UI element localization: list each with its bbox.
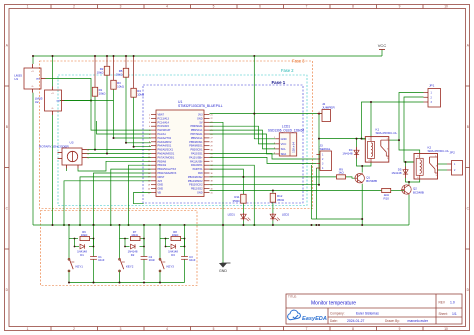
junction (361, 218, 363, 220)
svg-text:25: 25 (211, 130, 213, 132)
svg-text:Euler Sistemas: Euler Sistemas (356, 311, 379, 315)
LED LED2 (270, 213, 289, 221)
svg-text:21: 21 (148, 192, 150, 194)
svg-text:128 x 64: 128 x 64 (292, 142, 296, 153)
svg-text:SCL: SCL (281, 147, 287, 151)
pin L19 (151, 184, 156, 186)
svg-text:1: 1 (318, 112, 319, 114)
keys dashed box (41, 211, 198, 286)
svg-text:7: 7 (306, 327, 308, 331)
pin R21 (204, 192, 210, 194)
wire Q1 emitter to bus (361, 184, 363, 225)
svg-text:GND: GND (219, 269, 227, 273)
wire Q1 collector (361, 166, 363, 173)
svg-text:3: 3 (149, 122, 150, 124)
wire MCU to LCD VCC (210, 126, 276, 144)
wire column R3 (113, 56, 115, 80)
wire keys bottom rail (69, 282, 185, 284)
wire MCU row to bus (210, 165, 255, 225)
junction (63, 224, 65, 226)
junction (106, 153, 108, 155)
wire parallel posts (74, 239, 76, 247)
connector JP2 (447, 151, 463, 176)
junction (93, 282, 95, 284)
junction (94, 55, 96, 57)
junction (318, 138, 320, 140)
wire to VCC symbol (381, 50, 383, 57)
svg-text:5: 5 (149, 130, 150, 132)
wire encoder leg 1 stub (66, 169, 68, 172)
junction (93, 224, 95, 226)
svg-text:SDA: SDA (281, 152, 287, 156)
pin R16 (204, 172, 210, 174)
pin R4 (204, 125, 210, 127)
svg-text:B: B (467, 125, 469, 129)
svg-text:17: 17 (148, 177, 150, 179)
junction (222, 224, 224, 226)
capacitor C1 10nF (90, 255, 105, 262)
wire LM35 U2 out (60, 100, 91, 102)
svg-text:4: 4 (149, 126, 150, 128)
ground symbol (220, 263, 231, 267)
junction (124, 238, 126, 240)
relay K2 SRA-05VDC-CL (414, 146, 450, 180)
wire K1 net horizontal (319, 138, 366, 140)
pin R15 (204, 168, 210, 170)
svg-text:SRA-05VDC-CL: SRA-05VDC-CL (376, 131, 398, 135)
transistor Q1 BC548B (354, 173, 377, 184)
svg-text:10kΩ: 10kΩ (117, 85, 125, 89)
svg-text:39: 39 (211, 185, 213, 187)
pin L14 (151, 164, 156, 166)
svg-text:8: 8 (352, 327, 354, 331)
junction (119, 282, 121, 284)
pin L9 (151, 145, 156, 147)
resistor R12 (270, 193, 285, 202)
junction (143, 238, 145, 240)
svg-text:PB7/SDA1: PB7/SDA1 (191, 133, 204, 136)
junction (165, 246, 167, 248)
wire MCU key scan row 169.1 (111, 169, 151, 225)
key switch KEY3 (159, 258, 175, 272)
wire Q2 collector (408, 182, 410, 185)
junction (125, 55, 127, 57)
svg-text:PB9/SDA1: PB9/SDA1 (191, 125, 204, 128)
junction (133, 146, 135, 148)
key column KEY1 rails (68, 225, 70, 283)
svg-text:2: 2 (149, 118, 150, 120)
svg-text:Drawn By:: Drawn By: (385, 319, 400, 323)
svg-text:10kΩ: 10kΩ (116, 73, 124, 77)
wire MCU key scan row 173.0 (94, 173, 152, 225)
svg-text:PB13/SCK2: PB13/SCK2 (189, 184, 203, 187)
svg-text:BC548B: BC548B (413, 190, 424, 194)
pin R19 (204, 184, 210, 186)
svg-text:10nF: 10nF (189, 258, 196, 262)
wire parallel posts (165, 239, 167, 247)
junction (106, 55, 108, 57)
wire U2 crossing link (64, 100, 114, 102)
svg-text:GND: GND (281, 137, 287, 141)
svg-text:31: 31 (211, 153, 213, 155)
resistor R2 (97, 66, 110, 75)
svg-text:PB5/MOSI1: PB5/MOSI1 (189, 141, 203, 144)
resistor R1 (92, 87, 106, 96)
svg-text:10kΩ: 10kΩ (172, 233, 179, 237)
junction (361, 165, 363, 167)
svg-text:LED1: LED1 (228, 213, 236, 217)
svg-text:GND: GND (158, 184, 164, 187)
junction (318, 224, 320, 226)
pin L16 (151, 172, 156, 174)
svg-text:PB0/A8: PB0/A8 (158, 160, 167, 163)
svg-text:3V3: 3V3 (198, 114, 203, 117)
capacitor C2 10nF (141, 255, 156, 262)
pin L1 (151, 114, 156, 116)
junction (74, 238, 76, 240)
junction (253, 113, 255, 115)
pin R7 (204, 137, 210, 139)
svg-text:8: 8 (352, 5, 354, 9)
LCD pin GND (275, 138, 279, 140)
svg-text:VCC: VCC (378, 43, 387, 48)
svg-text:1.0: 1.0 (450, 301, 455, 305)
wire K2 flyback D5 bottom (406, 178, 420, 182)
svg-text:21: 21 (211, 114, 213, 116)
junction (128, 224, 130, 226)
svg-text:3: 3 (120, 5, 122, 9)
svg-text:PA11/USB-: PA11/USB- (190, 160, 203, 163)
svg-text:30: 30 (211, 149, 213, 151)
pin R17 (204, 176, 210, 178)
pin R9 (204, 145, 210, 147)
svg-text:6: 6 (149, 134, 150, 136)
pin L12 (151, 156, 156, 158)
svg-text:Fase 3: Fase 3 (292, 58, 305, 63)
junction (398, 139, 400, 141)
svg-text:PA15/SS1: PA15/SS1 (191, 153, 203, 156)
svg-text:PC15/A15: PC15/A15 (158, 125, 170, 128)
svg-text:PB14/MISO2: PB14/MISO2 (188, 180, 203, 183)
svg-text:JP2: JP2 (450, 151, 456, 155)
svg-text:41: 41 (211, 192, 213, 194)
junction (184, 224, 186, 226)
svg-text:1: 1 (274, 137, 275, 139)
svg-text:10: 10 (148, 149, 150, 151)
relay K1 SRA-05VDC-CL (365, 128, 397, 163)
svg-text:Monitor temperature: Monitor temperature (311, 300, 356, 306)
junction (311, 224, 313, 226)
junction (242, 176, 244, 178)
key switch KEY1 (68, 258, 84, 272)
svg-text:KEY2: KEY2 (126, 265, 134, 269)
resistor R8 (160, 230, 185, 241)
svg-text:PA2/A2/TX2: PA2/A2/TX2 (158, 137, 172, 140)
resistor R6 (69, 230, 94, 241)
wire ground bus (33, 224, 409, 226)
wire column R2 (106, 56, 108, 66)
svg-text:BC548B: BC548B (366, 179, 377, 183)
svg-text:1: 1 (27, 327, 29, 331)
wire MCU key scan row 176.9 (80, 177, 151, 225)
junction (272, 224, 274, 226)
svg-text:G: G (32, 86, 34, 88)
svg-text:KEY3: KEY3 (167, 265, 175, 269)
svg-text:B: B (6, 125, 8, 129)
wire column R5 (125, 56, 127, 68)
microcontroller U1 STM32F103C8T6_BLUEPILL (148, 100, 223, 196)
svg-text:JUMPER: JUMPER (322, 106, 335, 110)
junction (125, 142, 127, 144)
wire R11 feed (210, 169, 244, 194)
wire R11 aux feed (210, 176, 337, 178)
title block (286, 294, 462, 324)
junction (143, 224, 145, 226)
junction (143, 246, 145, 248)
svg-text:4: 4 (166, 5, 168, 9)
Fase 2 dashed box (58, 75, 307, 206)
wire encoder C into MCU (87, 156, 151, 158)
wire encoder A into MCU (87, 149, 151, 151)
svg-text:PC13/A13: PC13/A13 (158, 117, 170, 120)
sensor LM35 U2 (35, 87, 64, 116)
svg-text:PB12/SS2: PB12/SS2 (191, 188, 203, 191)
svg-text:PA3/A3/RX2: PA3/A3/RX2 (158, 141, 172, 144)
wire MCU bottom left jog (134, 193, 152, 204)
svg-text:28: 28 (211, 142, 213, 144)
svg-text:4: 4 (166, 327, 168, 331)
resistor R9 (337, 167, 346, 179)
svg-text:3: 3 (274, 147, 275, 149)
svg-text:VBAT: VBAT (158, 114, 165, 117)
wire MCU key scan row 165.2 (129, 165, 152, 225)
svg-text:R10: R10 (384, 196, 390, 200)
Fase 1 dashed box (143, 85, 303, 203)
junction (242, 224, 244, 226)
wire LM35 U2 top drop (52, 56, 54, 87)
svg-text:Fase 1: Fase 1 (272, 80, 286, 85)
wire MCU to J3 pin2 (210, 157, 317, 163)
JP1 pin 2 (424, 96, 429, 98)
key column KEY2 rails (119, 225, 121, 283)
J3 pin 3 (316, 163, 320, 165)
svg-text:19: 19 (148, 185, 150, 187)
svg-text:PA6/A6/MISO1: PA6/A6/MISO1 (158, 153, 175, 156)
pin R1 (204, 114, 210, 116)
svg-text:1N4148: 1N4148 (342, 152, 353, 156)
junction (113, 137, 115, 139)
pin R12 (204, 156, 210, 158)
svg-text:PA10/RX1: PA10/RX1 (191, 164, 203, 167)
wire LED2 to bus (272, 221, 274, 226)
svg-text:PB11/SDA2/RX3: PB11/SDA2/RX3 (158, 172, 177, 175)
pin L3 (151, 121, 156, 123)
pin R18 (204, 180, 210, 182)
svg-text:37: 37 (211, 177, 213, 179)
svg-text:1/1: 1/1 (452, 312, 457, 316)
junction (94, 149, 96, 151)
svg-text:Company:: Company: (330, 311, 345, 315)
svg-text:D1: D1 (80, 253, 84, 257)
Fase 3 dashed box (40, 61, 313, 286)
svg-text:27: 27 (211, 138, 213, 140)
svg-text:5V: 5V (199, 121, 202, 124)
wire parallel posts (124, 239, 126, 247)
resistor R5 (116, 68, 129, 77)
wire LM35 U1 bottom to bus (32, 93, 34, 225)
wire LED feed 2 / Q2 base (210, 190, 382, 192)
J3 pin 4 (316, 167, 320, 169)
LCD pin SDA (275, 153, 279, 155)
rotary encoder U3 (39, 141, 90, 169)
junction (32, 55, 34, 57)
svg-text:6: 6 (259, 327, 261, 331)
svg-text:STM32F103C8T6_BLUEPILL: STM32F103C8T6_BLUEPILL (178, 104, 223, 108)
wire LED1 link (242, 203, 244, 213)
svg-text:9: 9 (149, 146, 150, 148)
svg-text:18: 18 (148, 181, 150, 183)
svg-text:SSD1306_OLED_128x64: SSD1306_OLED_128x64 (268, 129, 305, 133)
EasyEDA logo (288, 310, 327, 322)
wire MCU to J3 pin1 (210, 154, 317, 160)
wire LM35 U1 out (46, 79, 152, 131)
pin L6 (151, 133, 156, 135)
svg-text:U2: U2 (35, 100, 39, 104)
svg-text:D2: D2 (131, 253, 135, 257)
wire MCU key scan row 180.8 (64, 181, 151, 225)
svg-text:10nF: 10nF (98, 258, 105, 262)
junction (68, 224, 70, 226)
pin R10 (204, 149, 210, 151)
pin L21 (151, 192, 156, 194)
display LCD1 SSD1306_OLED_128x64 (268, 125, 305, 157)
svg-text:1kΩ: 1kΩ (338, 171, 344, 175)
junction (356, 138, 358, 140)
diode D5 1N4148 (391, 167, 408, 179)
svg-text:NRST: NRST (158, 176, 165, 179)
svg-text:15: 15 (148, 169, 150, 171)
svg-text:PB1/A9: PB1/A9 (158, 164, 167, 167)
wire encoder B into MCU (87, 153, 151, 155)
wire MCU row 134 (97, 121, 152, 134)
wire JP1 pin1 to K2 (399, 93, 424, 154)
wire K2 flyback D5 top (406, 162, 415, 167)
wire R4 into MCU (134, 146, 151, 148)
svg-text:3V3: 3V3 (158, 180, 163, 183)
junction (361, 138, 363, 140)
power flag VCC (379, 49, 385, 51)
svg-text:10kΩ: 10kΩ (97, 71, 105, 75)
svg-text:PB10/SCL2/TX3: PB10/SCL2/TX3 (158, 168, 177, 171)
wire LED feed 1 (210, 184, 320, 186)
svg-text:10nF: 10nF (149, 258, 156, 262)
svg-text:PA7/A7/MOSI1: PA7/A7/MOSI1 (158, 156, 175, 159)
pin L20 (151, 188, 156, 190)
wire K2 contact2 to JP2 (438, 169, 448, 171)
junction (159, 224, 161, 226)
svg-text:5: 5 (213, 327, 215, 331)
wire JP1 pin2 to K2 (404, 97, 424, 162)
svg-text:23: 23 (211, 122, 213, 124)
svg-text:13: 13 (148, 161, 150, 163)
wire J2 net vertical (318, 114, 320, 185)
svg-text:out: out (57, 100, 61, 103)
junction (93, 246, 95, 248)
key switch KEY2 (118, 258, 134, 272)
pin L10 (151, 149, 156, 151)
J3 pin 2 (316, 158, 320, 160)
pin R11 (204, 153, 210, 155)
wire GND drop from J2 net (254, 56, 275, 139)
svg-text:JP1: JP1 (429, 84, 435, 88)
svg-text:29: 29 (211, 146, 213, 148)
svg-text:1N4148: 1N4148 (391, 171, 402, 175)
svg-text:Fase 2: Fase 2 (281, 68, 294, 73)
wire encoder leg 2 link (78, 161, 151, 171)
svg-text:U3: U3 (70, 141, 74, 145)
wire R3 into MCU (114, 137, 152, 139)
svg-text:PA12/USB+: PA12/USB+ (189, 156, 203, 159)
svg-text:350Ω: 350Ω (233, 199, 241, 203)
resistor R11 (233, 194, 247, 203)
wire K1 flyback D4 top (356, 139, 358, 147)
junction (90, 100, 92, 102)
svg-text:10: 10 (444, 5, 448, 9)
svg-text:PA4/A4/SS1: PA4/A4/SS1 (158, 145, 172, 148)
svg-text:D3: D3 (171, 253, 175, 257)
pin L8 (151, 141, 156, 143)
wire R5 into MCU (126, 142, 151, 144)
wire Q2 base (391, 190, 404, 192)
pin L15 (151, 168, 156, 170)
svg-text:LED2: LED2 (282, 213, 290, 217)
pin L2 (151, 117, 156, 119)
svg-text:U1: U1 (14, 77, 18, 81)
svg-text:32: 32 (211, 157, 213, 159)
JP1 pin 3 (424, 101, 429, 103)
wire J3 pin3 drop (311, 165, 313, 219)
svg-text:2: 2 (274, 142, 275, 144)
wire MCU to J2 jumper (210, 113, 323, 115)
svg-text:PC14/A14: PC14/A14 (158, 121, 170, 124)
svg-text:26: 26 (211, 134, 213, 136)
pin L11 (151, 153, 156, 155)
svg-text:SERIAL: SERIAL (320, 147, 331, 151)
svg-text:KEY1: KEY1 (76, 265, 84, 269)
svg-text:1: 1 (27, 5, 29, 9)
pin L5 (151, 129, 156, 131)
junction (143, 282, 145, 284)
resistor R7 (120, 230, 145, 241)
diode D3 1N4148 (166, 244, 185, 257)
resistor R4 (131, 88, 145, 97)
pin L17 (151, 176, 156, 178)
svg-text:1: 1 (149, 114, 150, 116)
pin L13 (151, 160, 156, 162)
svg-text:2024-01-27: 2024-01-27 (347, 319, 364, 323)
connector J2 JUMPER (317, 102, 335, 122)
svg-text:SRA-05VDC-CL: SRA-05VDC-CL (428, 149, 450, 153)
pin R8 (204, 141, 210, 143)
wire VCC top bus (33, 55, 382, 57)
svg-text:9: 9 (399, 5, 401, 9)
svg-text:4: 4 (274, 152, 275, 154)
svg-text:G: G (52, 108, 54, 110)
svg-text:2: 2 (73, 5, 75, 9)
junction (124, 246, 126, 248)
junction (184, 238, 186, 240)
wire LED2 link (272, 202, 274, 213)
